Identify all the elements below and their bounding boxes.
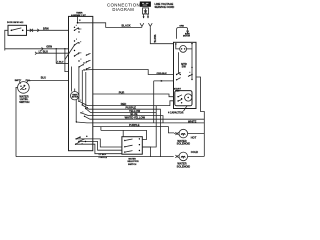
svg-text:COLD: COLD — [191, 150, 198, 154]
lid switch contacts — [11, 28, 24, 31]
svg-text:PURPLE: PURPLE — [99, 157, 108, 159]
wire BLACK: timer to plug left prong — [78, 23, 142, 28]
motor inner wires — [179, 44, 193, 80]
svg-text:SWITCH: SWITCH — [128, 164, 137, 166]
lid switch left wire — [5, 30, 8, 50]
lid switch box — [8, 25, 27, 35]
timer contacts cluster C — [74, 50, 82, 57]
capacitor leader + label — [168, 106, 187, 115]
svg-text:BLACK: BLACK — [122, 23, 131, 27]
svg-text:DOOR SW NO 412: DOOR SW NO 412 — [7, 21, 23, 24]
svg-text:SOLENOID: SOLENOID — [177, 164, 191, 168]
drive motor box — [174, 42, 197, 108]
svg-text:ORG-BLK: ORG-BLK — [157, 73, 168, 75]
svg-text:SERVICE CORD: SERVICE CORD — [155, 5, 175, 9]
wire WHITE: plug right prong down to motor — [150, 27, 173, 43]
wire motor to white bus — [196, 77, 204, 123]
junction node on GRN wire 2 — [64, 48, 65, 49]
labels left of selector — [99, 154, 108, 159]
timer motor circle — [71, 89, 79, 100]
title CONNECTION DIAGRAM — [107, 3, 140, 12]
svg-text:BRN: BRN — [43, 27, 49, 31]
svg-text:WHITE: WHITE — [188, 120, 197, 124]
label water level switch — [19, 94, 29, 104]
svg-text:DIAGRAM: DIAGRAM — [112, 7, 134, 12]
svg-text:4 CAPACITOR: 4 CAPACITOR — [168, 112, 184, 115]
connectors on lid wire — [30, 29, 39, 32]
timer motor feed — [71, 67, 73, 92]
svg-text:HOT: HOT — [191, 136, 197, 140]
water level switch — [18, 82, 30, 94]
wire PURPLE to cold solenoid — [93, 109, 161, 156]
timer bottom wires to selector — [76, 139, 122, 147]
svg-text:WHITE: WHITE — [153, 35, 156, 43]
svg-text:LT. BLU: LT. BLU — [56, 61, 64, 63]
timer inner verticals — [76, 67, 93, 122]
connector chevron on GRN wire — [42, 47, 44, 50]
wire RED branch to selector — [142, 106, 156, 147]
selector contacts — [124, 138, 140, 153]
svg-text:GRN: GRN — [46, 45, 52, 49]
labels EMPTY FULL — [15, 80, 31, 84]
svg-text:SWITCH: SWITCH — [19, 100, 29, 104]
start winding circle — [185, 94, 192, 101]
svg-text:SELECTOR: SELECTOR — [127, 161, 139, 163]
svg-text:MOTOR: MOTOR — [183, 36, 191, 38]
timer contacts cluster A — [74, 25, 82, 33]
svg-text:BLU: BLU — [41, 76, 46, 80]
timer contacts cluster B — [65, 39, 81, 60]
timer lower contacts — [76, 112, 93, 123]
svg-text:SW: SW — [182, 65, 187, 69]
wire LT BLU into timer — [37, 52, 69, 54]
timer top contact — [77, 16, 81, 23]
wire LT BLU 2 — [56, 63, 68, 65]
ground strap arch GRN — [177, 26, 191, 39]
timer box — [69, 16, 93, 150]
lid switch right wire — [27, 29, 69, 31]
plug prongs with arrows — [143, 14, 149, 19]
label water temp switch — [127, 157, 139, 166]
wire to selector right — [101, 127, 147, 140]
svg-text:WHITE-YELLOW: WHITE-YELLOW — [125, 116, 146, 120]
svg-text:BLUE: BLUE — [130, 112, 137, 116]
svg-text:LT. BLU: LT. BLU — [39, 49, 49, 53]
svg-text:RED: RED — [121, 102, 127, 106]
cold solenoid circle — [175, 152, 187, 161]
label water solenoid (cold) — [177, 162, 191, 169]
arrow wire into motor — [154, 80, 174, 123]
left vertical wire B — [65, 49, 69, 72]
label water solenoid (hot) — [177, 139, 191, 146]
white bus right vertical — [203, 123, 205, 156]
wire BLUE — [93, 116, 163, 123]
svg-text:PURPLE: PURPLE — [129, 123, 140, 127]
svg-text:WATER: WATER — [128, 157, 136, 160]
timer right column contacts — [86, 53, 91, 69]
svg-text:GRN: GRN — [179, 26, 184, 28]
wire PURPLE to hot solenoid — [93, 127, 174, 133]
wire WHITE-YELLOW — [93, 118, 205, 120]
label TIMER ASSEMBLY — [71, 12, 87, 17]
svg-text:SOLENOID: SOLENOID — [177, 141, 191, 145]
junction node on GRN wire — [56, 48, 57, 49]
label LINE VOLTAGE / SERVICE CORD — [155, 2, 175, 9]
motor terminal dot — [175, 43, 177, 45]
wire BLU from water level switch — [26, 81, 68, 83]
wire timer to motor switch — [84, 70, 174, 75]
water temp selector switch box — [122, 137, 142, 155]
timer terminal specks — [80, 54, 89, 144]
plug polarity symbol box — [143, 8, 149, 14]
wire YELLOW — [93, 112, 156, 114]
connector chevron on LT BLU wire — [35, 52, 37, 55]
timer contacts cluster D — [78, 59, 86, 71]
svg-text:MOTOR: MOTOR — [72, 97, 79, 99]
cold right stub + label COLD — [188, 155, 205, 157]
label MTR SW — [181, 62, 187, 69]
svg-text:EMPTY: EMPTY — [15, 80, 22, 82]
wire PUR to start — [93, 94, 174, 97]
start winding box — [175, 91, 192, 106]
motor circle — [176, 44, 192, 52]
hot solenoid circle — [174, 129, 187, 138]
timer bottom contacts — [75, 136, 88, 145]
selector output to bottom wire — [142, 147, 150, 157]
wire GRN into timer — [5, 48, 69, 50]
left vertical wire A — [55, 49, 57, 64]
connector Y terminals — [140, 23, 152, 27]
wire RED to start and selector — [93, 101, 174, 106]
svg-text:PUR: PUR — [119, 91, 125, 95]
wire water level to bottom — [16, 87, 18, 156]
bottom long wire — [16, 156, 174, 158]
start contacts — [177, 95, 182, 104]
line cord plug (black box) — [140, 2, 151, 7]
motor switch contacts — [176, 70, 193, 80]
wire WHITE long — [93, 122, 205, 124]
hot right stub + label HOT — [188, 133, 205, 135]
